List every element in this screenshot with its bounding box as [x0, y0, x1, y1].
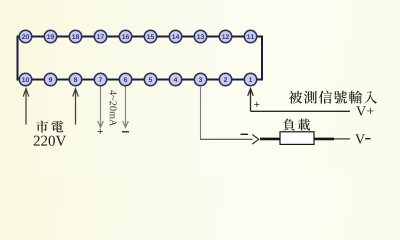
label: 220V	[34, 136, 67, 146]
pin 8	[69, 73, 81, 85]
label: 4~20mA (rotated)	[110, 90, 117, 126]
pin 15	[144, 30, 156, 42]
label: V-	[355, 134, 365, 143]
wire: signal input V+ up into pin 1	[248, 89, 350, 112]
pin 1	[244, 73, 256, 85]
pin 11	[244, 30, 256, 42]
label: V+	[356, 106, 373, 115]
label: - (load negative)	[241, 133, 249, 135]
pin 20	[19, 30, 31, 42]
wire: mains L arrow into pin 10	[23, 89, 29, 125]
pin 7	[94, 73, 106, 85]
pin 5	[144, 73, 156, 85]
pin 18	[69, 30, 81, 42]
pin 3	[194, 73, 206, 85]
pin 4	[169, 73, 181, 85]
pin 12	[219, 30, 231, 42]
pin 9	[44, 73, 56, 85]
pin 16	[119, 30, 131, 42]
wire: load left lead	[260, 138, 281, 141]
resistor RL load box	[280, 132, 314, 145]
wire: 4-20mA output + from pin 7	[98, 87, 104, 128]
pin 2	[219, 73, 231, 85]
connector frame (terminal strip outline)	[18, 37, 263, 80]
wire: load right lead	[314, 138, 334, 141]
wire: 4-20mA output - from pin 6	[123, 87, 129, 128]
pin 17	[94, 30, 106, 42]
label: 被測信號輸入 (measured signal input)	[289, 91, 377, 104]
wire: from pin 3 down and right to load	[200, 87, 202, 139]
wire: mains N arrow into pin 8	[73, 89, 79, 125]
arrowhead into load	[252, 135, 258, 145]
pin 14	[169, 30, 181, 42]
label: + (4-20mA positive)	[98, 129, 103, 134]
pin 19	[44, 30, 56, 42]
label: 市電 (mains)	[36, 121, 63, 133]
label: 負載 (load)	[283, 119, 310, 131]
wire: lead to V-	[334, 138, 350, 140]
label: + (signal positive)	[254, 102, 259, 107]
label: - (4-20mA negative)	[122, 131, 129, 133]
pin 6	[119, 73, 131, 85]
pin 10	[19, 73, 31, 85]
pin 13	[194, 30, 206, 42]
